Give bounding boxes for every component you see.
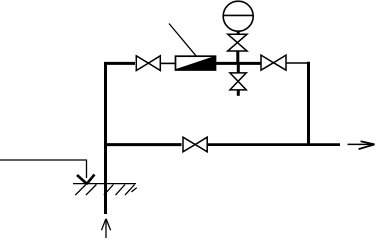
wire gauge stem xyxy=(237,31,240,35)
valve V2 xyxy=(261,55,286,70)
pressure gauge PG1 xyxy=(223,1,253,31)
wire bottom line right segment xyxy=(208,143,340,146)
valve V1 xyxy=(136,56,160,71)
wire drain stub xyxy=(237,90,240,96)
wire top line corner to valve V1 xyxy=(104,62,135,65)
wire top line filter to valve V2 xyxy=(216,62,262,65)
inflow arrow up xyxy=(102,219,111,238)
wire bottom line left segment xyxy=(104,143,182,146)
wire stub V1 to filter F1 xyxy=(160,62,175,64)
leader line to filter xyxy=(169,24,196,56)
wire main line to drain valve V5 xyxy=(237,63,240,73)
valve V3 bypass xyxy=(183,137,207,152)
wire left vertical pipe xyxy=(104,62,107,214)
wire V4 to main line xyxy=(236,51,239,63)
wire right vertical pipe xyxy=(307,62,310,146)
valve V5 drain xyxy=(230,73,246,90)
ground hatch xyxy=(73,184,137,196)
filter F1 xyxy=(176,56,216,70)
wire stub V2 to right pipe xyxy=(286,62,309,64)
annotation leader with arrow xyxy=(0,160,95,184)
flow arrow right xyxy=(348,141,375,149)
valve V4 gauge isolation xyxy=(228,34,247,51)
